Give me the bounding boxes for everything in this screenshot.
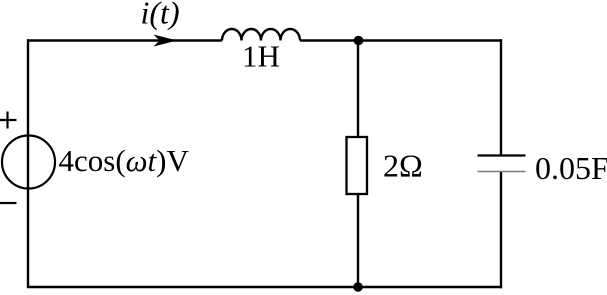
inductor L 1H bbox=[222, 29, 300, 40]
wire middle vertical upper bbox=[357, 41, 359, 139]
svg-text:1H: 1H bbox=[242, 39, 280, 74]
capacitor C bottom plate bbox=[478, 171, 526, 173]
wire middle vertical lower bbox=[357, 194, 359, 288]
svg-text:i(t): i(t) bbox=[141, 0, 180, 31]
resistor R 2ohm body bbox=[347, 137, 368, 194]
wire right vertical upper bbox=[500, 39, 502, 155]
voltage source V1 circle bbox=[2, 136, 55, 189]
plus sign bbox=[0, 119, 17, 121]
svg-text:2Ω: 2Ω bbox=[383, 148, 423, 184]
svg-text:0.05F: 0.05F bbox=[535, 150, 607, 186]
svg-text:4cos(ωt)V: 4cos(ωt)V bbox=[59, 143, 190, 178]
wire bottom bbox=[27, 286, 502, 288]
junction node bottom bbox=[353, 282, 363, 292]
minus sign bbox=[0, 202, 17, 204]
wire left vertical bbox=[27, 39, 29, 288]
wire top-left to inductor bbox=[27, 39, 222, 41]
wire inductor to top-right corner bbox=[300, 39, 502, 41]
capacitor C top plate bbox=[478, 154, 526, 156]
wire right vertical lower bbox=[500, 172, 502, 289]
current arrow bbox=[154, 35, 178, 47]
junction node top bbox=[354, 36, 364, 46]
